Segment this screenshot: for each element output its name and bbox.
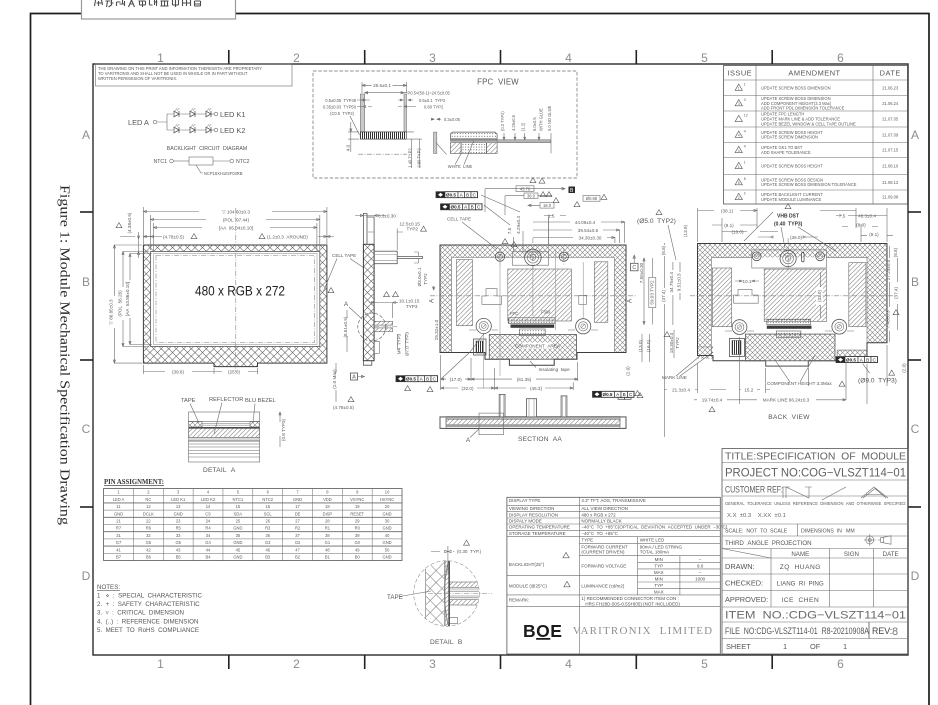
svg-text:37: 37: [295, 533, 300, 538]
centerline horizontal: [430, 295, 636, 297]
svg-text:DIMENSIONS IN: DIMENSIONS IN: [801, 529, 842, 535]
svg-text:NTC2: NTC2: [236, 159, 250, 165]
svg-text:NOTES:: NOTES:: [97, 584, 120, 591]
front view centerline vertical: [235, 208, 237, 372]
detail A dashed circle: [358, 313, 386, 341]
detail B dark wall line: [448, 558, 450, 630]
back left step outline: [734, 289, 759, 303]
svg-text:(9.1): (9.1): [724, 223, 734, 228]
svg-text:BACKLIGHT CIRCUIT DIAGRAM: BACKLIGHT CIRCUIT DIAGRAM: [167, 146, 247, 152]
svg-text:A: A: [352, 375, 356, 381]
FPC connector dotted strip: [508, 318, 555, 324]
section AA posts (screw bosses): [499, 394, 505, 417]
svg-text:ZQ HUANG: ZQ HUANG: [780, 564, 821, 571]
detail B screw bar lower: [450, 596, 479, 598]
svg-text:(17.0): (17.0): [450, 377, 462, 382]
dim 0.80 TYP2: [398, 106, 416, 108]
svg-text:15.2: 15.2: [744, 387, 753, 392]
back screw boss middle: [780, 250, 796, 266]
vertical dim 66.85: [113, 245, 142, 363]
svg-text:59.03 TYP2: 59.03 TYP2: [649, 280, 654, 305]
middle view outline: [440, 245, 626, 365]
svg-text:21.06.23: 21.06.23: [882, 85, 899, 90]
svg-text:33: 33: [176, 533, 181, 538]
section AA hatched layer: [446, 419, 620, 424]
detail B lens arc: [445, 560, 449, 627]
svg-text:6.3±0.30: 6.3±0.30: [378, 213, 396, 218]
svg-text:(8.61±0.5): (8.61±0.5): [343, 316, 348, 337]
back bottom tab: [766, 361, 809, 366]
svg-text:B7: B7: [116, 555, 122, 560]
svg-text:CELL TAPE: CELL TAPE: [447, 217, 471, 222]
svg-text:NTC1: NTC1: [233, 497, 244, 502]
svg-text:R1: R1: [325, 526, 331, 531]
svg-text:17: 17: [295, 504, 300, 509]
svg-text:5. MEET TO RoHS COMPLIANCE: 5. MEET TO RoHS COMPLIANCE: [97, 627, 199, 634]
back boss bottom left: [732, 320, 747, 335]
svg-text:(2.0): (2.0): [626, 366, 631, 376]
svg-text:REMARK:: REMARK:: [509, 598, 530, 603]
svg-text:4.3" TFT, AOS, TRANSMISSIVE: 4.3" TFT, AOS, TRANSMISSIVE: [581, 498, 645, 503]
svg-text:18.0: 18.0: [543, 203, 552, 208]
svg-text:8: 8: [744, 177, 746, 181]
light guide hatched: [189, 428, 260, 437]
svg-text:(CURRENT DRIVEN): (CURRENT DRIVEN): [581, 550, 625, 555]
dim 34.75±0.4 vertical: [673, 262, 680, 325]
insulating tape label: [530, 361, 536, 368]
svg-text:TAPE: TAPE: [181, 398, 196, 404]
svg-text:0.80 TYP2: 0.80 TYP2: [424, 105, 444, 110]
svg-text:50: 50: [385, 547, 390, 552]
svg-text:1: 1: [744, 82, 746, 86]
spec row DISPALY MODE: [507, 523, 720, 525]
screw boss bottom right: [576, 319, 591, 334]
svg-text:39.54±0.5: 39.54±0.5: [578, 228, 599, 233]
svg-text:46: 46: [265, 547, 270, 552]
svg-text:ADD SHAPE TOLERANCE: ADD SHAPE TOLERANCE: [761, 150, 811, 155]
svg-text:DATE: DATE: [880, 69, 901, 78]
tooltip chinese text bottom halves: [95, 0, 103, 6]
svg-text:STORAGE TEMPERATURE: STORAGE TEMPERATURE: [509, 531, 566, 536]
svg-text:1: 1: [157, 51, 164, 65]
svg-text:3: 3: [744, 98, 746, 102]
svg-text:4.0: 4.0: [346, 144, 351, 151]
section AA bar: [440, 417, 626, 429]
dim 4.0 vertical: [348, 122, 359, 152]
svg-text:VSYNC: VSYNC: [350, 497, 364, 502]
svg-text:3: 3: [429, 657, 436, 671]
svg-text:21.07.05: 21.07.05: [882, 117, 899, 122]
vertical dim 8.61: [346, 310, 348, 352]
svg-text:NCP18XH103F03RB: NCP18XH103F03RB: [204, 171, 243, 176]
svg-text:REFLECTOR: REFLECTOR: [209, 397, 243, 403]
svg-text:DRAWN:: DRAWN:: [725, 562, 755, 571]
svg-text:CELL TAPE: CELL TAPE: [332, 253, 356, 258]
svg-text:COMPONENT HEIGHT 3.3Max: COMPONENT HEIGHT 3.3Max: [767, 381, 832, 386]
svg-text:10: 10: [385, 490, 390, 495]
svg-text:18.30±0.4: 18.30±0.4: [669, 332, 674, 353]
svg-text:GND: GND: [233, 555, 242, 560]
svg-text:TITLE:SPECIFICATION OF MODUL: TITLE:SPECIFICATION OF MODULE: [725, 451, 906, 463]
detail B bezel wall coarse hatch: [426, 558, 445, 630]
interconnect wires between LEDs: [179, 114, 206, 130]
svg-text:27.24±0.4: 27.24±0.4: [886, 259, 891, 280]
svg-text:19: 19: [355, 504, 360, 509]
detail B dim 0.30 TYP: [431, 546, 455, 573]
svg-text:4.29±0.4: 4.29±0.4: [516, 216, 521, 234]
svg-text:UPDATE SCREW DIMENSION: UPDATE SCREW DIMENSION: [761, 135, 818, 140]
vertical dim POL 56.26: [122, 252, 149, 347]
svg-text:44.09±0.4: 44.09±0.4: [575, 220, 596, 225]
svg-text:UPDATE SCREW BOSS HEIGHT: UPDATE SCREW BOSS HEIGHT: [761, 164, 823, 169]
svg-text:43: 43: [176, 547, 181, 552]
svg-text:34.30±0.30: 34.30±0.30: [579, 235, 602, 240]
reflector dark line: [189, 427, 260, 428]
svg-text:29: 29: [355, 519, 360, 524]
dim 18.30±0.4 TYP2 vertical: [673, 330, 675, 358]
dim AA 95.04: [154, 223, 317, 252]
svg-text:FORWARD CURRENT: FORWARD CURRENT: [581, 544, 627, 549]
back boss bottom right: [832, 319, 847, 334]
svg-text:32: 32: [146, 533, 151, 538]
svg-text:PIN ASSIGNMENT:: PIN ASSIGNMENT:: [104, 479, 164, 486]
svg-text:DISPALY MODE: DISPALY MODE: [509, 519, 542, 524]
svg-text:(2.0): (2.0): [902, 363, 907, 373]
svg-text:90mA / LED STRING: 90mA / LED STRING: [640, 544, 683, 549]
svg-text:VARITRONIX LIMITED: VARITRONIX LIMITED: [573, 625, 714, 637]
FPC contact bar (striped): [360, 132, 406, 139]
datum B C boxes lower left: [618, 393, 625, 400]
svg-text:3: 3: [429, 51, 436, 65]
logo cell divider: [578, 607, 580, 654]
dim 7.50±0.30 vertical: [643, 258, 645, 325]
svg-text:0.35±0.03 TYP50: 0.35±0.03 TYP50: [323, 105, 357, 110]
svg-text:27: 27: [295, 519, 300, 524]
svg-text:7.45±0.3: 7.45±0.3: [886, 310, 891, 328]
svg-text:FPC: FPC: [510, 311, 518, 316]
LED string K1 (3 LEDs): [174, 111, 179, 117]
svg-text:LED A: LED A: [128, 118, 149, 127]
dims (13.0)/(16.0) vertical: [642, 334, 650, 362]
wire to LED K2: [211, 129, 214, 131]
back view central hatched block: [764, 269, 826, 321]
triangle below side view: [405, 386, 411, 391]
svg-text:COMPONENT AREA: COMPONENT AREA: [515, 343, 561, 348]
svg-text:2: 2: [293, 657, 300, 671]
thermistor body: [189, 157, 213, 165]
FPC view dashed box: [313, 71, 577, 178]
svg-text:4.25±0.5: 4.25±0.5: [511, 114, 516, 131]
spec row DISPLAY TYPE: [507, 504, 720, 506]
svg-text:NAME: NAME: [791, 551, 809, 558]
FPC tail arm: [497, 140, 550, 143]
svg-text:42: 42: [146, 547, 151, 552]
svg-text:12: 12: [146, 504, 151, 509]
svg-text:5: 5: [701, 657, 708, 671]
tolerance frame lower left: [396, 376, 438, 382]
svg-text:2: 2: [293, 51, 300, 65]
svg-text:GND: GND: [383, 555, 392, 560]
svg-text:B: B: [82, 275, 90, 289]
middle view hatched frame: [440, 245, 626, 353]
vertical dim AA 53.86: [129, 254, 152, 345]
FPC side section: reflector strip: [450, 140, 497, 142]
svg-text:480 x RGB x 272: 480 x RGB x 272: [195, 284, 285, 299]
svg-text:(0.40 TYP3): (0.40 TYP3): [774, 222, 803, 228]
svg-text:MARK LINE: MARK LINE: [662, 375, 687, 380]
svg-text:LED K2: LED K2: [201, 497, 216, 502]
back view hatched frame: [698, 244, 888, 361]
svg-text:34: 34: [206, 533, 211, 538]
back view outline: [698, 244, 888, 367]
svg-text:4: 4: [744, 129, 746, 133]
top screw plate: [512, 252, 548, 265]
thermistor NTC2 node: [230, 159, 234, 163]
svg-text:TYP: TYP: [654, 583, 663, 588]
small block below screw: [374, 341, 379, 353]
central PCB hatched: [508, 269, 572, 321]
dim 0.5±0.1 TYP2: [398, 99, 413, 101]
FPC side section: bottom dotted middle: [461, 143, 486, 154]
svg-text:21.07.15: 21.07.15: [882, 148, 899, 153]
svg-text:GND: GND: [174, 511, 183, 516]
svg-text:[AA 53.86±0.10]: [AA 53.86±0.10]: [125, 282, 130, 316]
svg-text:DISPLAY RESOLUTION: DISPLAY RESOLUTION: [509, 512, 558, 517]
svg-text:(8.0): (8.0): [856, 223, 866, 228]
svg-text:NC: NC: [145, 497, 151, 502]
svg-text:(Ø5.0 TYP2): (Ø5.0 TYP2): [637, 218, 676, 225]
dim P0.5x(50-1)=24.5±0.05: [365, 92, 407, 94]
svg-text:GENERAL TOLERANCE UNLESS RE: GENERAL TOLERANCE UNLESS REFERENCE DIMEN…: [725, 501, 906, 506]
FPC dotted block: [520, 329, 546, 336]
boxed dim 38.0: [524, 193, 538, 198]
left reflector hatched: [456, 260, 472, 326]
svg-text:UPDATE SCREW BOSS DIMENSION: UPDATE SCREW BOSS DIMENSION: [761, 85, 831, 90]
svg-text:MM: MM: [846, 529, 855, 535]
svg-text:MAX: MAX: [654, 590, 664, 595]
FPC stiffener piece: [434, 132, 437, 153]
FPC side section: top plate dotted: [450, 132, 497, 139]
back view dim 33.0 vertical: [820, 272, 822, 318]
svg-text:▽ 104.60±0.3: ▽ 104.60±0.3: [222, 209, 250, 214]
svg-text:12: 12: [744, 114, 748, 118]
svg-text:1: 1: [744, 161, 746, 165]
svg-text:35: 35: [236, 533, 241, 538]
svg-text:(1.2): (1.2): [521, 122, 526, 131]
side view screw threads: [374, 321, 393, 325]
zone ticks right: [908, 211, 921, 213]
dims above back view left: [698, 208, 758, 242]
svg-text:5: 5: [701, 51, 708, 65]
dims below middle view: [441, 355, 578, 390]
svg-text:▽ 66.85±0.3: ▽ 66.85±0.3: [109, 299, 114, 325]
svg-text:6: 6: [837, 51, 844, 65]
detail B tape strip: [445, 558, 448, 630]
spec row VIEWING DIRECTION: [507, 511, 720, 513]
amendment row 6: [735, 162, 742, 168]
svg-text:4. (..) : REFERENCE DIMENS: 4. (..) : REFERENCE DIMENSION: [97, 618, 198, 625]
amendment row 7: [735, 179, 742, 185]
svg-text:TYP2: TYP2: [675, 337, 680, 349]
svg-text:G6: G6: [146, 540, 152, 545]
dim 10.1±0.15 TYP3: [369, 302, 398, 319]
svg-text:14: 14: [206, 504, 211, 509]
svg-text:4: 4: [738, 134, 740, 138]
svg-text:(4.38±0.5): (4.38±0.5): [127, 212, 132, 233]
dim 104.60±0.3: [143, 207, 327, 244]
svg-text:MARK LINE 66.24±0.3: MARK LINE 66.24±0.3: [763, 397, 810, 402]
detail B screw bar upper: [450, 582, 479, 587]
svg-text:WHITE LINE: WHITE LINE: [448, 164, 473, 169]
svg-text:(4.78±0.5): (4.78±0.5): [333, 405, 354, 410]
tolerance frame below back view: [836, 357, 878, 363]
svg-text:MAX: MAX: [654, 570, 664, 575]
svg-text:ITEM NO.:CDG−VLSZT114−01: ITEM NO.:CDG−VLSZT114−01: [725, 610, 906, 622]
svg-text:2.80 TYP2: 2.80 TYP2: [417, 148, 422, 168]
zone ticks bottom: [228, 655, 230, 669]
svg-text:UPDATE MODULE LUMINANCE: UPDATE MODULE LUMINANCE: [761, 197, 821, 202]
svg-text:−40°C TO +85°C: −40°C TO +85°C: [581, 531, 618, 536]
right reflector hatched: [594, 262, 607, 323]
left side view wall: [363, 244, 374, 360]
svg-text:Ø0.88: Ø0.88: [586, 196, 598, 201]
svg-text:5.0 NO GLUE: 5.0 NO GLUE: [547, 105, 552, 131]
svg-text:(1.2±0.3 AROUND): (1.2±0.3 AROUND): [267, 234, 308, 239]
front view POL outline: [154, 254, 318, 345]
svg-text:7.5: 7.5: [507, 227, 512, 234]
side view bottom tab: [363, 361, 371, 366]
boxed dim Ø0.88: [583, 196, 600, 202]
svg-text:−40°C TO +85°C(OPTICAL DEVI: −40°C TO +85°C(OPTICAL DEVIATION ACCEPTE…: [581, 525, 727, 530]
zone ticks top: [228, 50, 230, 64]
svg-text:B1: B1: [325, 555, 331, 560]
tolerance frame above section AA: [593, 391, 635, 397]
wire thermistor to NTC2: [213, 160, 230, 162]
svg-text:4: 4: [565, 657, 572, 671]
svg-text:34.75±0.4: 34.75±0.4: [669, 272, 674, 293]
extension lines through middle view: [484, 218, 584, 388]
svg-text:(13.9): (13.9): [683, 225, 688, 237]
svg-text:FPC VIEW: FPC VIEW: [477, 78, 519, 87]
svg-text:C: C: [82, 422, 91, 436]
pin assignment table: [104, 489, 402, 561]
svg-text:10.1±0.15: 10.1±0.15: [399, 299, 420, 304]
svg-text:0.5±0.1 TYP2: 0.5±0.1 TYP2: [419, 98, 446, 103]
sheet frame: [93, 64, 908, 655]
svg-text:26: 26: [265, 519, 270, 524]
spec table outer: [507, 497, 720, 654]
svg-text:1: 1: [738, 165, 740, 169]
boxed datum A below front view: [351, 373, 358, 380]
back connector: [729, 338, 744, 356]
svg-text:(16.0): (16.0): [646, 340, 651, 352]
svg-text:30: 30: [385, 519, 390, 524]
svg-text:AMENDMENT: AMENDMENT: [788, 69, 840, 78]
svg-text:28: 28: [325, 519, 330, 524]
svg-text:ICE CHEN: ICE CHEN: [781, 597, 819, 604]
svg-text:(25.0): (25.0): [228, 369, 240, 374]
svg-text:22: 22: [146, 519, 151, 524]
dim 0.8 TYP3: [279, 412, 281, 447]
svg-text:18: 18: [325, 504, 330, 509]
detail B centerline: [428, 593, 492, 595]
svg-text:47: 47: [295, 547, 300, 552]
svg-text:B: B: [866, 357, 869, 362]
svg-text:(37.4): (37.4): [661, 290, 666, 302]
svg-text:D: D: [82, 569, 91, 583]
svg-text:DISP: DISP: [323, 511, 333, 516]
svg-text:LED K2: LED K2: [220, 126, 245, 135]
svg-text:OF: OF: [810, 642, 821, 651]
svg-text:(32.0): (32.0): [461, 386, 473, 391]
svg-text:13: 13: [176, 504, 181, 509]
svg-text:LIANG RI PING: LIANG RI PING: [777, 581, 824, 588]
svg-text:GND: GND: [233, 526, 242, 531]
svg-text:(61.35): (61.35): [517, 377, 532, 382]
projection symbols: [866, 536, 874, 544]
svg-text:(C0.5 TYP2): (C0.5 TYP2): [330, 111, 355, 116]
svg-text:TYP3: TYP3: [406, 304, 418, 309]
svg-text:[AA 95.04±0.10]: [AA 95.04±0.10]: [219, 225, 253, 230]
svg-text:HSYNC: HSYNC: [380, 497, 394, 502]
back slot: [802, 252, 805, 261]
svg-text:REV:: REV:: [872, 626, 892, 636]
svg-text:BACK VIEW: BACK VIEW: [768, 414, 810, 421]
svg-text:(0.8 TYP3): (0.8 TYP3): [281, 418, 286, 441]
svg-text:(37.4): (37.4): [894, 287, 899, 299]
svg-text:1: 1: [157, 657, 164, 671]
svg-text:Ø0.5: Ø0.5: [603, 392, 613, 397]
front view hatched bezel: [143, 245, 327, 367]
back dotted block: [776, 331, 801, 337]
spec row OPERATING TEMPERATURE: [507, 529, 720, 531]
svg-text:UPDATE SCREW BOSS DIMENSION TO: UPDATE SCREW BOSS DIMENSION TOLERANCE: [761, 182, 857, 187]
section AA end caps: [440, 417, 446, 429]
svg-text:R3: R3: [265, 526, 271, 531]
svg-text:45: 45: [236, 547, 241, 552]
lower films: [189, 438, 260, 442]
FPC tail line: [397, 256, 422, 258]
svg-text:DETAIL A: DETAIL A: [203, 467, 236, 474]
svg-text:(Ø9.0 TYP3): (Ø9.0 TYP3): [858, 378, 897, 385]
spec row DISPLAY RESOLUTION: [507, 517, 720, 519]
svg-text:BACKLIGHT(25°): BACKLIGHT(25°): [509, 562, 545, 567]
svg-text:TYPE: TYPE: [581, 538, 593, 543]
svg-text:48: 48: [325, 547, 330, 552]
side view FPC exit tab: [374, 251, 397, 264]
svg-text:B: B: [471, 205, 474, 210]
svg-text:1: 1: [783, 642, 787, 651]
spec backlight block: [507, 575, 720, 577]
svg-text:4: 4: [744, 145, 746, 149]
svg-text:G1: G1: [325, 540, 331, 545]
svg-text:C: C: [911, 422, 920, 436]
title block frame: [722, 449, 908, 655]
datum target B: [569, 187, 576, 194]
svg-text:Ø0.5: Ø0.5: [846, 357, 856, 362]
svg-text:LED K1: LED K1: [220, 110, 245, 119]
back screw boss right: [816, 252, 825, 261]
detail B circle: [414, 561, 480, 627]
svg-text:19.74±0.4: 19.74±0.4: [702, 397, 723, 402]
svg-text:WRITTEN PERMISSION OF VARITRON: WRITTEN PERMISSION OF VARITRONIX.: [98, 76, 177, 81]
boss centerlines: [499, 248, 501, 266]
svg-text:20: 20: [385, 504, 390, 509]
dim 0.3±0.05: [431, 118, 441, 120]
dim 6.3±0.30: [355, 214, 385, 216]
svg-text:(9.1): (9.1): [869, 232, 879, 237]
svg-text:25.32±1.0: 25.32±1.0: [434, 319, 439, 340]
